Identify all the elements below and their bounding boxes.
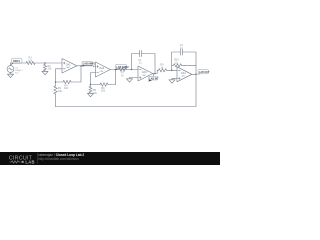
svg-text:10k: 10k: [58, 89, 63, 93]
svg-text:OA4: OA4: [181, 72, 186, 75]
wire OA2 output row: [110, 69, 138, 71]
svg-text:LAB: LAB: [66, 66, 71, 69]
footer bar: [0, 152, 220, 165]
wire OA1 output: [77, 65, 96, 68]
ground (R2): [42, 71, 48, 74]
svg-text:OA1: OA1: [66, 63, 71, 66]
node flag VOUT: [196, 70, 210, 75]
wire OA3 output: [153, 70, 159, 73]
svg-text:SRC1: SRC1: [13, 59, 20, 63]
resistor R1: [26, 56, 35, 65]
footer caption: [37, 153, 38, 164]
svg-text:LAB: LAB: [142, 74, 147, 77]
wire to OA1 inverting input: [56, 69, 63, 82]
op-amp OA3: [138, 66, 153, 81]
resistor R6 (feedback): [91, 83, 116, 93]
svg-text:10k: 10k: [101, 89, 106, 93]
node A junction: [44, 62, 46, 64]
svg-text:LAB INT: LAB INT: [149, 77, 159, 80]
voltage source V1: [7, 63, 23, 74]
resistor R4 (feedback): [56, 80, 82, 90]
wire to OA2 inverting input: [91, 73, 96, 85]
resistor R7: [119, 68, 127, 78]
ground (OA4 +): [169, 80, 175, 83]
wire OA4 + input to ground: [172, 78, 177, 80]
resistor R2: [43, 63, 52, 71]
ground (OA3 +): [127, 79, 133, 82]
svg-text:LAB: LAB: [25, 160, 34, 165]
node B junction: [55, 81, 57, 83]
svg-text:OA2: OA2: [99, 67, 104, 70]
capacitor C2 (feedback): [172, 43, 196, 65]
svg-text:10k: 10k: [47, 67, 52, 71]
svg-text:OA3: OA3: [142, 71, 147, 74]
node flag VSRC: [10, 58, 22, 65]
resistor R10 (feedback): [172, 58, 196, 71]
resistor R9: [159, 63, 178, 72]
op-amp OA4: [177, 67, 192, 82]
svg-text:1k): 1k): [15, 72, 18, 74]
svg-text:LAB AMP1: LAB AMP1: [83, 63, 96, 66]
node D junction: [171, 70, 173, 72]
capacitor C1 (integrator feedback): [132, 50, 156, 73]
op-amp OA1: [62, 59, 77, 74]
ground (R5): [88, 93, 94, 96]
svg-text:LAB: LAB: [181, 75, 186, 78]
svg-text:LAB: LAB: [99, 70, 104, 73]
svg-text:10k: 10k: [93, 91, 98, 95]
wire source to R1: [11, 62, 27, 64]
ground (source): [8, 74, 14, 77]
op-amp OA2: [96, 62, 111, 77]
CircuitLab logo: [0, 152, 40, 166]
node flag VERR: [82, 61, 96, 66]
svg-text:10k: 10k: [64, 86, 69, 90]
node flag VA2: [115, 64, 129, 70]
svg-text:10k: 10k: [28, 58, 33, 62]
wire R1 to node A: [35, 62, 62, 64]
feedback bus wire: [56, 74, 197, 106]
wire R4 up to OA1 output: [80, 66, 82, 82]
wire R6 up to OA2 output: [115, 70, 117, 85]
resistor R3 (to feedback bus): [54, 82, 63, 107]
resistor R5 (to ground): [89, 84, 98, 95]
wire OA3 + input to ground: [130, 78, 139, 79]
node C junction: [131, 69, 133, 71]
svg-text:LAB OUT: LAB OUT: [199, 71, 210, 74]
wire OA4 output / feedback riser: [192, 73, 196, 75]
node flag VINT: [148, 74, 159, 82]
